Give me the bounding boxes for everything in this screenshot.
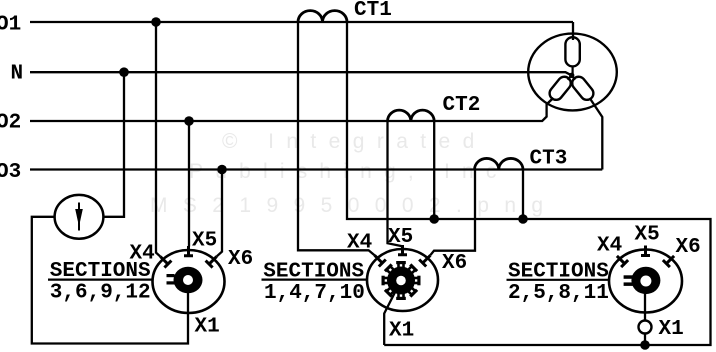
wire CT1 left secondary to connector2 X4 — [298, 22, 375, 255]
connector J1 tick X5 — [184, 246, 193, 257]
junction dot O2 — [184, 116, 194, 126]
wire O1 riser to lamp top — [572, 22, 574, 40]
connector J3 tick X5 — [641, 246, 650, 257]
svg-text:X4: X4 — [347, 231, 372, 254]
svg-text:O2: O2 — [0, 112, 21, 135]
lamp bank circle — [528, 34, 617, 111]
wire O3 drop to connector1 X6 — [217, 170, 222, 257]
connector J3 tick X6 — [663, 256, 674, 267]
meter M1 circle — [55, 195, 104, 239]
svg-text:X4: X4 — [597, 235, 622, 258]
wire O1 drop to connector1 X4 — [156, 22, 160, 257]
connector J1 circle — [153, 250, 225, 313]
svg-text:X6: X6 — [442, 252, 467, 275]
svg-text:O3: O3 — [0, 161, 21, 184]
connector J3 keyway — [624, 275, 633, 279]
junction dot CT3 return — [518, 214, 528, 224]
wire connector3 X1 upper — [644, 281, 646, 321]
wire meter left loop to connector1 X1 — [32, 217, 188, 344]
wire CT3 left secondary to connector2 X6 — [430, 170, 475, 256]
svg-text:MS219950002.png: MS219950002.png — [150, 194, 559, 217]
svg-text:X1: X1 — [659, 318, 684, 341]
connector J3 X1 terminal circle — [639, 321, 652, 334]
junction dot O1 — [151, 17, 161, 27]
connector J2 circle — [367, 249, 438, 311]
underline connector3 — [507, 279, 610, 281]
svg-text:X5: X5 — [192, 229, 217, 252]
wire O1 phase line — [30, 21, 573, 23]
connector J1 tick X4 — [160, 257, 171, 268]
junction dot CT2 return — [429, 214, 439, 224]
wire O3 riser to lamp bottom-right — [590, 98, 603, 169]
connector J3 circle — [609, 250, 682, 313]
junction dot O3 — [217, 165, 227, 175]
wire O2 phase line with riser to lamp bottom-left — [30, 98, 553, 121]
wire CT2 right secondary drop — [433, 121, 435, 219]
wire CT1 right secondary return — [347, 22, 711, 345]
svg-text:CT3: CT3 — [530, 148, 568, 171]
connector J2 tick X6 — [419, 255, 430, 266]
wire N drop to meter — [103, 72, 124, 217]
junction dot connector3 X1 — [640, 340, 650, 350]
lamp capsule phase1 — [565, 37, 579, 66]
svg-text:X6: X6 — [228, 248, 253, 271]
CT coil CT1 — [298, 11, 347, 22]
CT coil CT2 — [388, 110, 435, 121]
wire connector3 X1 lower — [644, 334, 646, 346]
connector J1 tick X6 — [206, 256, 217, 267]
wire N phase line — [30, 72, 572, 75]
lamp capsule phase3 — [570, 74, 596, 102]
svg-text:2,5,8,11: 2,5,8,11 — [508, 282, 609, 305]
wire O3 phase line — [30, 168, 602, 170]
svg-text:O1: O1 — [0, 14, 21, 37]
connector J3 tick X4 — [617, 256, 628, 267]
lamp junction wires — [547, 66, 576, 104]
junction dot N — [119, 67, 129, 77]
wire connector2 X1 — [384, 281, 401, 346]
connector J1 center pin — [174, 267, 203, 293]
connector J2 gear pin — [382, 261, 421, 300]
svg-text:X5: X5 — [388, 226, 413, 249]
connector J2 tick X5 — [398, 245, 407, 256]
connector J2 tick X4 — [375, 255, 386, 266]
svg-text:© Integrated: © Integrated — [222, 130, 487, 153]
svg-text:N: N — [11, 63, 24, 86]
svg-text:1,4,7,10: 1,4,7,10 — [264, 282, 365, 305]
svg-text:X1: X1 — [195, 316, 220, 339]
connector J1 keyway — [167, 274, 175, 277]
svg-text:X1: X1 — [389, 320, 414, 343]
svg-text:CT1: CT1 — [354, 0, 392, 22]
wire CT3 right secondary drop — [522, 170, 524, 220]
svg-text:X6: X6 — [676, 236, 701, 259]
svg-text:Publishing, Inc: Publishing, Inc — [189, 160, 509, 183]
meter arrow — [78, 203, 80, 231]
svg-text:X5: X5 — [635, 224, 660, 247]
wire O2 drop to connector1 X5 — [188, 121, 190, 247]
underline connector2 — [262, 279, 368, 281]
connector J3 center pin — [631, 267, 660, 294]
svg-text:3,6,9,12: 3,6,9,12 — [50, 281, 151, 304]
lamp junction node — [569, 73, 574, 78]
wire CT2 left secondary to connector2 X5 — [388, 121, 403, 246]
CT coil CT3 — [475, 158, 524, 169]
lamp capsule phase2 — [547, 74, 573, 102]
svg-text:CT2: CT2 — [443, 94, 481, 117]
underline connector1 — [48, 279, 153, 281]
